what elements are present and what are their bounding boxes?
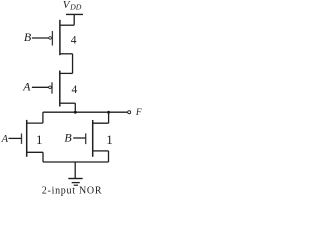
- wire PMOS B to PMOS A: [72, 54, 74, 74]
- transistor Q2 PMOS A channel: [59, 71, 61, 107]
- wire PMOS B source lead: [60, 24, 74, 26]
- svg-text:4: 4: [71, 35, 77, 47]
- ground bar 3: [74, 184, 78, 186]
- wire NMOS A source lead: [27, 151, 43, 153]
- svg-text:4: 4: [72, 84, 78, 96]
- svg-text:2-input NOR: 2-input NOR: [42, 186, 102, 197]
- wire PMOS A drain lead: [60, 102, 76, 104]
- node VDD label: [63, 0, 82, 11]
- wire PMOS A source lead: [60, 72, 73, 74]
- transistor Q3 NMOS A channel: [26, 120, 28, 157]
- transistor Q1 PMOS B channel: [59, 20, 61, 55]
- wire gate B (top): [32, 37, 49, 39]
- VDD supply bar: [66, 13, 83, 15]
- svg-text:F: F: [135, 108, 142, 118]
- wire gate A (middle): [32, 86, 49, 88]
- transistor Q2 PMOS A gate bubble: [49, 86, 52, 89]
- svg-text:B: B: [64, 131, 72, 145]
- output terminal circle: [128, 111, 131, 114]
- wire PMOS A drain to output rail: [74, 103, 76, 112]
- wire NMOS B source lead: [93, 150, 109, 152]
- svg-text:A: A: [1, 134, 9, 145]
- transistor Q3 NMOS A gate plate: [21, 134, 23, 144]
- wire output rail to NMOS A drain: [42, 112, 44, 123]
- wire NMOS B drain to rail: [108, 112, 110, 123]
- svg-text:B: B: [24, 30, 32, 44]
- wire VDD stub down: [73, 14, 75, 25]
- transistor Q4 NMOS B channel: [92, 120, 94, 157]
- junction dot (NMOS B drain / rail): [107, 111, 110, 114]
- wire NMOS A source to ground rail: [42, 152, 44, 162]
- transistor Q2 PMOS A gate plate: [51, 82, 53, 93]
- wire gate B (bottom): [73, 137, 86, 139]
- transistor Q1 PMOS B gate plate: [51, 31, 53, 46]
- ground bar 1: [68, 178, 82, 180]
- svg-text:1: 1: [36, 132, 43, 147]
- wire ground stub: [74, 162, 76, 178]
- wire NMOS A drain lead: [27, 122, 43, 124]
- junction dot (PMOS drain / rail): [74, 111, 77, 114]
- wire NMOS B source to ground rail: [108, 151, 110, 162]
- svg-text:1: 1: [106, 132, 113, 147]
- wire output rail: [43, 111, 128, 113]
- transistor Q1 PMOS B gate bubble: [49, 37, 52, 40]
- wire ground rail: [43, 161, 109, 163]
- wire PMOS B drain lead: [60, 53, 73, 55]
- wire gate A (bottom): [9, 137, 22, 139]
- svg-text:A: A: [22, 80, 31, 94]
- wire NMOS B drain lead: [93, 122, 109, 124]
- svg-text:DD: DD: [69, 2, 82, 11]
- ground bar 2: [72, 182, 80, 184]
- transistor Q4 NMOS B gate plate: [85, 133, 87, 144]
